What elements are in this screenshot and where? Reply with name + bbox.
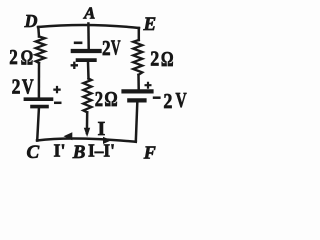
- svg-text:2: 2: [9, 45, 17, 69]
- wire R3 to right battery B3: [137, 75, 140, 89]
- wire left branch top segment D to R1: [37, 27, 40, 37]
- wire right branch E to R3: [138, 28, 141, 40]
- svg-text:V: V: [111, 36, 121, 60]
- svg-text:A: A: [83, 3, 95, 22]
- svg-text:I': I': [54, 141, 66, 161]
- wire R1 to left battery: [38, 63, 41, 97]
- svg-text:F: F: [143, 142, 156, 162]
- svg-text:V: V: [176, 88, 187, 112]
- svg-text:2: 2: [102, 36, 111, 60]
- plus sign middle battery: [71, 62, 78, 69]
- battery B2 middle 2V long plate: [73, 49, 100, 53]
- svg-text:Ω: Ω: [104, 87, 117, 111]
- svg-text:2: 2: [163, 89, 172, 113]
- wire R2 down to node B with current I: [86, 112, 89, 133]
- wire battery B2 to R2: [87, 62, 90, 79]
- resistor R3 right 2-ohm zigzag: [133, 40, 142, 75]
- battery B3 right 2V short plate: [129, 98, 144, 102]
- resistor R2 middle 2-ohm zigzag: [83, 79, 91, 113]
- arrow current I minus I-prime rightward on wire BF: [103, 137, 111, 144]
- battery B1 left 2V short plate (-): [32, 105, 47, 109]
- resistor R1 left 2-ohm zigzag: [36, 37, 45, 64]
- battery B3 right 2V long plate: [124, 89, 152, 93]
- minus sign right battery: [153, 96, 161, 99]
- svg-text:C: C: [27, 142, 40, 163]
- svg-text:Ω: Ω: [161, 47, 174, 71]
- minus sign left battery: [54, 102, 62, 105]
- wire right battery to F: [136, 103, 138, 142]
- svg-text:2: 2: [95, 87, 103, 111]
- svg-text:E: E: [143, 14, 157, 35]
- wire middle branch A to battery B2: [87, 24, 90, 49]
- battery B1 left 2V long plate (+): [25, 97, 51, 101]
- battery B2 middle 2V short plate: [78, 58, 95, 62]
- svg-text:I: I: [98, 118, 106, 140]
- plus sign right battery: [145, 82, 152, 89]
- wire bottom C-B-F: [37, 139, 136, 142]
- svg-text:I–I': I–I': [88, 141, 115, 161]
- svg-text:V: V: [22, 75, 34, 99]
- arrow current I downward at node B: [84, 128, 90, 137]
- plus sign left battery: [53, 86, 60, 93]
- wire left battery to C: [37, 109, 39, 141]
- wire top D-A-E: [38, 25, 139, 28]
- minus sign middle battery: [74, 41, 83, 44]
- arrow current I-prime leftward on wire CB: [64, 132, 73, 140]
- svg-text:B: B: [72, 142, 86, 163]
- svg-text:2: 2: [12, 75, 21, 99]
- svg-text:Ω: Ω: [21, 45, 34, 69]
- svg-text:2: 2: [150, 46, 159, 70]
- svg-text:D: D: [24, 11, 38, 31]
